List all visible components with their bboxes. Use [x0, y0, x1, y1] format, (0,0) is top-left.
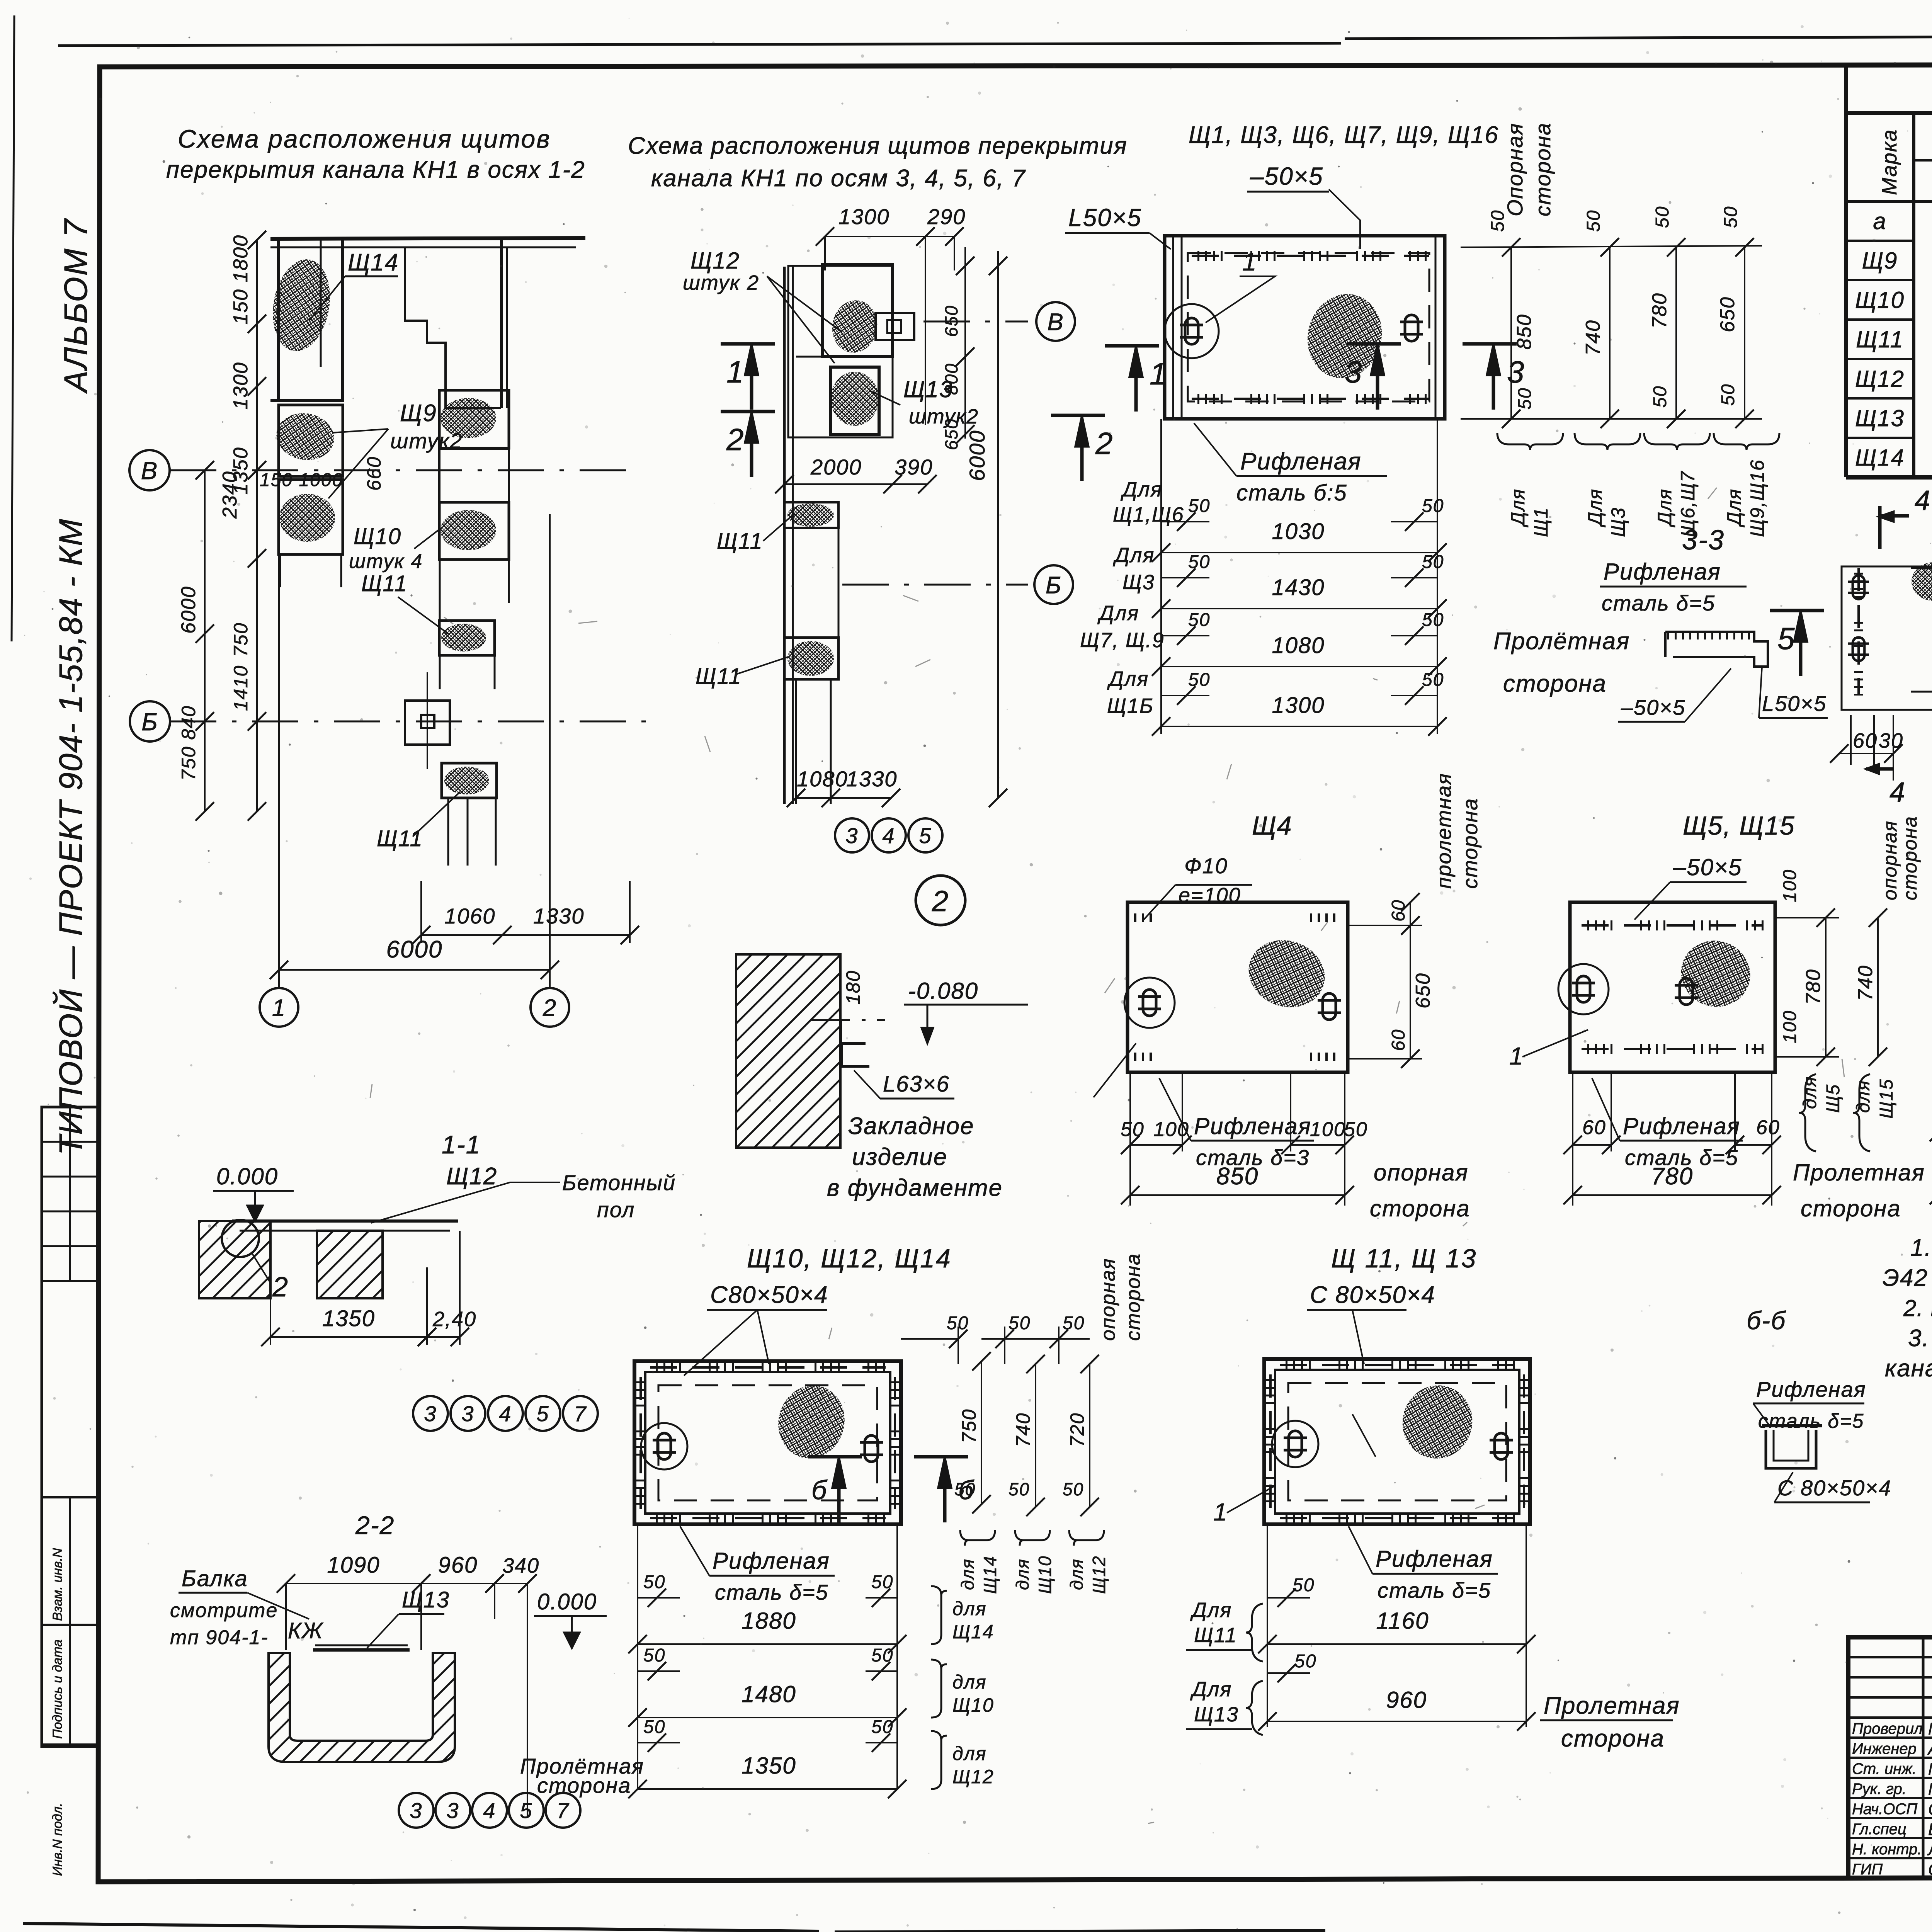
svg-text:Щ10: Щ10 — [952, 1694, 994, 1716]
svg-text:50: 50 — [1422, 496, 1444, 516]
svg-text:Щ9,Щ16: Щ9,Щ16 — [1747, 459, 1768, 537]
svg-text:Щ11: Щ11 — [696, 664, 742, 689]
svg-text:50: 50 — [1063, 1313, 1085, 1333]
svg-text:4: 4 — [1889, 777, 1906, 808]
svg-text:2,40: 2,40 — [432, 1308, 476, 1331]
svg-text:3. Временная нормативная нагру: 3. Временная нормативная нагрузка на пер… — [1908, 1325, 1932, 1352]
svg-text:Инженер: Инженер — [1852, 1740, 1917, 1757]
svg-text:4: 4 — [1915, 485, 1931, 516]
svg-text:650: 650 — [1412, 973, 1434, 1009]
svg-text:Щ12: Щ12 — [446, 1163, 497, 1190]
svg-text:Щ11: Щ11 — [1856, 327, 1904, 352]
svg-text:50: 50 — [1188, 496, 1210, 516]
svg-text:Макарова: Макарова — [1928, 1719, 1932, 1738]
svg-text:390: 390 — [895, 455, 933, 479]
svg-text:50: 50 — [643, 1645, 665, 1666]
svg-text:сторона: сторона — [1370, 1196, 1470, 1221]
svg-text:Для: Для — [1723, 488, 1745, 527]
svg-text:сторона: сторона — [1503, 670, 1607, 697]
svg-text:для: для — [1012, 1558, 1032, 1590]
svg-text:850: 850 — [1513, 314, 1536, 350]
svg-text:сталь б:5: сталь б:5 — [1236, 480, 1347, 505]
svg-text:150 1800: 150 1800 — [230, 235, 252, 325]
svg-text:Для: Для — [1097, 602, 1139, 625]
svg-text:Рифленая: Рифленая — [1623, 1113, 1740, 1139]
svg-text:0.000: 0.000 — [216, 1163, 278, 1189]
svg-text:Щ 11, Щ 13: Щ 11, Щ 13 — [1331, 1244, 1477, 1273]
svg-text:Щ12: Щ12 — [952, 1766, 994, 1787]
svg-text:1080: 1080 — [1272, 633, 1325, 658]
svg-text:Щ10: Щ10 — [1855, 287, 1905, 313]
svg-text:60: 60 — [1388, 900, 1409, 922]
svg-text:2-2: 2-2 — [355, 1511, 395, 1539]
svg-text:740: 740 — [1012, 1413, 1034, 1447]
svg-text:Щ1: Щ1 — [1530, 507, 1552, 537]
svg-text:опорная: опорная — [1097, 1258, 1119, 1341]
svg-text:б-б: б-б — [1747, 1306, 1786, 1335]
svg-text:Щ9: Щ9 — [400, 400, 437, 427]
svg-text:4: 4 — [499, 1401, 512, 1426]
svg-text:Для: Для — [1121, 478, 1162, 501]
svg-text:сторона: сторона — [1531, 122, 1555, 216]
svg-text:750 840: 750 840 — [178, 705, 199, 781]
svg-text:Нач.ОСП: Нач.ОСП — [1852, 1801, 1918, 1818]
svg-text:перекрытия канала КН1 в осях 1: перекрытия канала КН1 в осях 1-2 — [166, 156, 585, 183]
svg-text:для: для — [952, 1598, 987, 1619]
svg-text:Взам. инв.N: Взам. инв.N — [50, 1548, 65, 1621]
svg-text:Щ13: Щ13 — [1194, 1703, 1239, 1726]
svg-text:Щ14: Щ14 — [348, 249, 399, 276]
svg-text:С80×50×4: С80×50×4 — [710, 1282, 828, 1308]
svg-text:С 80×50×4: С 80×50×4 — [1310, 1282, 1435, 1308]
svg-text:сторона: сторона — [1801, 1196, 1901, 1221]
svg-text:1-1: 1-1 — [442, 1130, 481, 1159]
svg-text:1. Конструкции сварные. Сварку: 1. Конструкции сварные. Сварку производи… — [1910, 1235, 1932, 1261]
svg-text:2: 2 — [543, 995, 557, 1021]
svg-text:Щ15: Щ15 — [1876, 1078, 1897, 1119]
svg-text:канала qᴴ= 10.0 кПа (1000 кгс/: канала qᴴ= 10.0 кПа (1000 кгс/м²). — [1885, 1355, 1932, 1382]
svg-text:Закладное: Закладное — [848, 1113, 975, 1139]
svg-text:50: 50 — [1422, 670, 1444, 690]
svg-text:50: 50 — [954, 1479, 976, 1499]
svg-text:850: 850 — [1216, 1163, 1259, 1190]
svg-text:1350: 1350 — [322, 1306, 375, 1331]
svg-text:50: 50 — [1488, 210, 1508, 232]
svg-text:опорная: опорная — [1879, 820, 1901, 900]
svg-text:L50×5: L50×5 — [1068, 204, 1142, 231]
svg-text:сталь δ=5: сталь δ=5 — [1602, 591, 1715, 615]
svg-text:780: 780 — [1648, 293, 1671, 328]
svg-text:1: 1 — [272, 995, 286, 1021]
svg-text:5: 5 — [1777, 621, 1796, 656]
svg-text:штук 2: штук 2 — [683, 271, 759, 294]
svg-text:Гл.спец: Гл.спец — [1852, 1821, 1906, 1838]
svg-text:2: 2 — [932, 885, 949, 918]
svg-text:6000: 6000 — [386, 936, 443, 963]
svg-text:50: 50 — [871, 1572, 893, 1592]
svg-text:сталь δ=5: сталь δ=5 — [715, 1580, 828, 1604]
svg-text:Щ11: Щ11 — [361, 571, 408, 596]
svg-text:Н. контр.: Н. контр. — [1852, 1841, 1922, 1858]
svg-text:780: 780 — [1651, 1163, 1693, 1190]
svg-text:Щ4: Щ4 — [1252, 811, 1293, 840]
svg-text:сторона: сторона — [1899, 816, 1921, 900]
svg-text:канала КН1 по осям 3, 4, 5, 6,: канала КН1 по осям 3, 4, 5, 6, 7 — [651, 165, 1026, 192]
svg-text:3: 3 — [410, 1798, 422, 1823]
svg-text:30: 30 — [1879, 729, 1903, 752]
svg-text:штук 4: штук 4 — [349, 550, 423, 573]
svg-text:Б: Б — [141, 708, 158, 736]
svg-text:50: 50 — [1063, 1479, 1084, 1499]
svg-text:1300: 1300 — [1272, 693, 1325, 718]
svg-text:750: 750 — [230, 622, 252, 657]
svg-text:Рифленая: Рифленая — [1240, 448, 1361, 475]
svg-text:ГИП: ГИП — [1852, 1861, 1883, 1878]
svg-text:Щ14: Щ14 — [1855, 445, 1905, 471]
svg-text:Щ1,Щ6: Щ1,Щ6 — [1113, 503, 1184, 526]
svg-text:5: 5 — [919, 823, 932, 848]
svg-text:1160: 1160 — [1376, 1608, 1429, 1634]
svg-text:сторона: сторона — [1561, 1725, 1665, 1752]
svg-text:Щ7, Щ.9: Щ7, Щ.9 — [1080, 629, 1165, 652]
svg-text:740: 740 — [1854, 965, 1877, 1001]
svg-text:50: 50 — [1188, 552, 1210, 572]
svg-text:50: 50 — [871, 1717, 893, 1737]
svg-text:Осташевский: Осташевский — [1928, 1860, 1932, 1879]
svg-text:50: 50 — [871, 1645, 893, 1666]
svg-text:Э42 по ГОСТ 9467-75.: Э42 по ГОСТ 9467-75. — [1883, 1265, 1932, 1291]
svg-text:Моргунов: Моргунов — [1928, 1780, 1932, 1799]
svg-text:В: В — [141, 457, 158, 485]
svg-text:60: 60 — [1853, 729, 1878, 752]
svg-text:1030: 1030 — [1272, 519, 1325, 544]
svg-text:3: 3 — [1345, 355, 1363, 389]
svg-text:290: 290 — [927, 204, 966, 229]
svg-text:50: 50 — [1293, 1575, 1315, 1595]
svg-text:50: 50 — [1721, 206, 1741, 228]
svg-text:Щ10: Щ10 — [354, 524, 401, 549]
svg-text:1410: 1410 — [230, 665, 252, 711]
svg-text:50: 50 — [1009, 1479, 1030, 1499]
svg-text:Щ14: Щ14 — [952, 1621, 994, 1643]
svg-text:Для: Для — [1113, 544, 1155, 567]
svg-text:3: 3 — [1507, 355, 1525, 389]
svg-text:2: 2 — [272, 1272, 289, 1303]
svg-text:60: 60 — [1582, 1116, 1606, 1139]
svg-text:смотрите: смотрите — [170, 1599, 278, 1622]
svg-text:50: 50 — [1583, 210, 1604, 232]
svg-text:60: 60 — [1756, 1116, 1780, 1139]
svg-text:б: б — [811, 1475, 828, 1505]
svg-text:340: 340 — [502, 1554, 539, 1577]
svg-text:50: 50 — [1652, 206, 1673, 228]
svg-text:4: 4 — [483, 1798, 496, 1823]
svg-text:сталь δ=5: сталь δ=5 — [1378, 1578, 1491, 1602]
svg-text:Щ1Б: Щ1Б — [1107, 694, 1154, 718]
svg-text:50: 50 — [1188, 670, 1210, 690]
svg-text:Рифленая: Рифленая — [1604, 559, 1721, 585]
svg-text:50: 50 — [643, 1572, 665, 1592]
svg-text:Бояриченко: Бояриченко — [1928, 1820, 1932, 1839]
svg-text:Пролетная: Пролетная — [1793, 1160, 1925, 1185]
svg-text:3: 3 — [446, 1798, 459, 1823]
svg-text:Для: Для — [1190, 1599, 1232, 1622]
svg-text:Макарова: Макарова — [1928, 1760, 1932, 1779]
svg-text:-0.080: -0.080 — [908, 978, 978, 1004]
svg-text:1090: 1090 — [327, 1553, 380, 1578]
svg-text:L50×5: L50×5 — [1762, 691, 1827, 716]
svg-text:изделие: изделие — [852, 1144, 947, 1170]
svg-text:Щ3: Щ3 — [1607, 507, 1629, 537]
svg-text:ТИПОВОЙ — ПРОЕКТ 904- 1-55,84: ТИПОВОЙ — ПРОЕКТ 904- 1-55,84 - КМ — [53, 518, 89, 1155]
svg-text:Схема расположения щитов: Схема расположения щитов — [178, 124, 551, 153]
svg-text:сторона: сторона — [1122, 1253, 1145, 1341]
svg-text:650: 650 — [941, 418, 961, 450]
svg-text:1430: 1430 — [1272, 575, 1325, 600]
svg-text:1330: 1330 — [533, 904, 585, 928]
svg-text:50: 50 — [643, 1717, 665, 1737]
svg-text:50: 50 — [1344, 1118, 1368, 1141]
svg-text:3: 3 — [424, 1401, 437, 1426]
svg-text:Саакьянц: Саакьянц — [1928, 1800, 1932, 1819]
svg-text:Инв.N подл.: Инв.N подл. — [50, 1803, 65, 1876]
svg-text:2340: 2340 — [219, 471, 241, 519]
svg-text:50: 50 — [1294, 1651, 1316, 1672]
svg-text:6000: 6000 — [177, 586, 200, 634]
svg-text:Рук. гр.: Рук. гр. — [1852, 1781, 1906, 1798]
svg-text:пролетная: пролетная — [1432, 773, 1456, 889]
svg-text:2000: 2000 — [810, 455, 862, 479]
svg-text:650: 650 — [1716, 296, 1739, 332]
svg-text:Щ14: Щ14 — [980, 1555, 1000, 1594]
svg-text:L63×6: L63×6 — [883, 1071, 950, 1097]
svg-text:для: для — [1066, 1558, 1087, 1590]
svg-text:а: а — [1873, 208, 1886, 234]
svg-text:Подпись и дата: Подпись и дата — [50, 1639, 65, 1739]
svg-text:–50×5: –50×5 — [1673, 854, 1742, 880]
svg-text:Проверил: Проверил — [1852, 1720, 1923, 1737]
svg-text:50: 50 — [1422, 552, 1444, 572]
svg-text:50: 50 — [1009, 1313, 1031, 1333]
svg-text:50: 50 — [947, 1313, 969, 1333]
svg-text:750: 750 — [958, 1409, 980, 1443]
svg-text:1: 1 — [1213, 1498, 1228, 1526]
svg-text:720: 720 — [1066, 1413, 1088, 1447]
svg-text:Для: Для — [1190, 1678, 1232, 1701]
svg-text:5: 5 — [536, 1401, 549, 1426]
svg-text:Щ12: Щ12 — [1089, 1555, 1109, 1594]
svg-text:–50×5: –50×5 — [1250, 162, 1323, 190]
svg-text:1480: 1480 — [742, 1681, 796, 1707]
svg-text:для: для — [1853, 1080, 1874, 1113]
svg-text:Ст. инж.: Ст. инж. — [1852, 1760, 1917, 1777]
svg-text:Щ13: Щ13 — [402, 1587, 450, 1612]
svg-text:60: 60 — [1388, 1029, 1409, 1051]
svg-text:Марка: Марка — [1878, 129, 1901, 195]
svg-text:Щ12: Щ12 — [690, 248, 740, 274]
svg-text:Для: Для — [1107, 667, 1149, 690]
svg-text:в фундаменте: в фундаменте — [827, 1175, 1003, 1201]
svg-text:1330: 1330 — [846, 767, 898, 791]
svg-text:960: 960 — [1386, 1687, 1427, 1713]
svg-text:7: 7 — [574, 1401, 587, 1426]
svg-text:1080: 1080 — [797, 767, 848, 791]
svg-text:Щ13: Щ13 — [1855, 405, 1905, 431]
svg-text:1060: 1060 — [444, 904, 496, 928]
svg-text:100: 100 — [1153, 1118, 1189, 1141]
svg-text:6000: 6000 — [965, 430, 989, 481]
svg-text:Щ5: Щ5 — [1823, 1084, 1844, 1113]
svg-text:сталь δ=5: сталь δ=5 — [1758, 1410, 1864, 1432]
svg-text:960: 960 — [438, 1553, 478, 1578]
svg-text:для: для — [1800, 1076, 1820, 1109]
svg-text:7: 7 — [556, 1798, 569, 1823]
svg-text:1300: 1300 — [838, 204, 890, 229]
svg-text:660: 660 — [363, 456, 385, 491]
svg-text:Щ11: Щ11 — [377, 826, 423, 851]
svg-text:Щ12: Щ12 — [1855, 366, 1905, 392]
svg-text:Для: Для — [1507, 488, 1529, 527]
svg-text:2. Приварку рёбер осуществлять: 2. Приварку рёбер осуществлять непрерывн… — [1903, 1295, 1932, 1321]
svg-text:Рифленая: Рифленая — [1376, 1546, 1493, 1572]
svg-text:1: 1 — [726, 355, 745, 389]
svg-text:3: 3 — [845, 823, 858, 848]
svg-text:Для: Для — [1584, 488, 1606, 527]
svg-text:опорная: опорная — [1374, 1160, 1469, 1185]
svg-text:Щ3: Щ3 — [1122, 571, 1155, 594]
svg-text:100: 100 — [1780, 1010, 1800, 1043]
svg-text:Щ10: Щ10 — [1035, 1555, 1055, 1594]
svg-text:3-3: 3-3 — [1682, 525, 1725, 556]
svg-text:сторона: сторона — [537, 1773, 631, 1798]
svg-text:В: В — [1047, 309, 1064, 335]
svg-text:Рифленая: Рифленая — [713, 1548, 830, 1574]
svg-text:2: 2 — [1095, 426, 1114, 461]
svg-text:50: 50 — [1515, 388, 1535, 410]
svg-text:1300: 1300 — [230, 362, 252, 410]
svg-text:Щ9: Щ9 — [1862, 248, 1898, 274]
svg-text:2: 2 — [726, 422, 745, 457]
svg-text:800: 800 — [941, 363, 961, 395]
svg-text:50: 50 — [1121, 1118, 1145, 1141]
svg-text:пол: пол — [597, 1197, 635, 1222]
svg-text:50: 50 — [1188, 610, 1210, 630]
svg-text:е=100: е=100 — [1179, 884, 1241, 907]
svg-text:50: 50 — [1650, 386, 1670, 408]
svg-text:Опорная: Опорная — [1503, 122, 1527, 216]
svg-text:Схема расположения щитов перек: Схема расположения щитов перекрытия — [628, 133, 1128, 159]
svg-text:1: 1 — [1242, 247, 1257, 276]
svg-text:Ф10: Ф10 — [1184, 854, 1228, 878]
svg-text:1: 1 — [1509, 1042, 1524, 1070]
svg-text:3: 3 — [461, 1401, 474, 1426]
svg-text:5: 5 — [520, 1798, 532, 1823]
svg-text:для: для — [952, 1743, 987, 1764]
svg-text:для: для — [957, 1558, 978, 1590]
svg-text:740: 740 — [1582, 320, 1604, 355]
svg-text:Щ11: Щ11 — [717, 529, 763, 554]
svg-text:1350: 1350 — [742, 1753, 796, 1779]
svg-text:100: 100 — [1310, 1118, 1346, 1141]
svg-text:50: 50 — [1718, 384, 1738, 406]
svg-text:–50×5: –50×5 — [1621, 695, 1685, 719]
svg-text:1880: 1880 — [742, 1608, 796, 1634]
svg-text:Бетонный: Бетонный — [562, 1170, 676, 1195]
svg-text:Рифленая: Рифленая — [1756, 1377, 1866, 1401]
svg-text:Пролётная: Пролётная — [1493, 628, 1630, 655]
svg-text:150 1000: 150 1000 — [260, 470, 343, 490]
svg-text:для: для — [952, 1671, 987, 1693]
svg-text:Пролетная: Пролетная — [1544, 1692, 1680, 1719]
svg-text:АЛЬБОМ 7: АЛЬБОМ 7 — [58, 218, 94, 394]
svg-text:50: 50 — [1422, 610, 1444, 630]
svg-text:Щ11: Щ11 — [1194, 1624, 1237, 1647]
svg-text:180: 180 — [842, 970, 864, 1005]
svg-text:100: 100 — [1780, 869, 1800, 902]
svg-text:тп 904-1-: тп 904-1- — [170, 1626, 269, 1649]
svg-text:сторона: сторона — [1459, 798, 1482, 889]
svg-text:Для: Для — [1654, 488, 1675, 527]
svg-text:Щ1, Щ3, Щ6, Щ7, Щ9, Щ16: Щ1, Щ3, Щ6, Щ7, Щ9, Щ16 — [1189, 122, 1499, 148]
svg-text:Б: Б — [1046, 572, 1062, 599]
svg-text:Рифленая: Рифленая — [1194, 1113, 1311, 1139]
svg-text:Щ5, Щ15: Щ5, Щ15 — [1683, 811, 1795, 840]
svg-text:Балка: Балка — [182, 1566, 248, 1591]
svg-text:Щ10, Щ12, Щ14: Щ10, Щ12, Щ14 — [747, 1244, 952, 1273]
svg-text:4: 4 — [882, 823, 895, 848]
svg-text:780: 780 — [1802, 969, 1825, 1005]
svg-text:КЖ: КЖ — [288, 1618, 324, 1643]
svg-text:0.000: 0.000 — [537, 1589, 597, 1614]
